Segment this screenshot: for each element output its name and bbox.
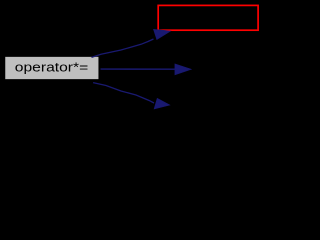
svg-text:operator*=: operator*= — [15, 60, 89, 75]
wire edge bottom — [93, 83, 170, 109]
wire edge to red node — [92, 29, 171, 57]
node red (truncated) — [158, 5, 258, 30]
node operator*= — [5, 56, 100, 80]
wire edge middle — [101, 64, 192, 75]
